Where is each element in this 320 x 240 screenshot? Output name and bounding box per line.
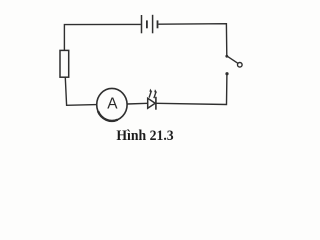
switch lever: [227, 56, 238, 63]
wire: left vertical upper + top wire to battery: [64, 24, 140, 50]
switch pivot dot: [225, 55, 228, 58]
ammeter A1 circle: [97, 88, 127, 120]
battery cell plate long (right): [152, 15, 154, 34]
ammeter bottom thicker arc: [98, 111, 118, 121]
wire: battery to top-right corner down to switch pivot: [158, 24, 227, 56]
resistor rectangle: [60, 50, 69, 77]
wire: ammeter to LED: [127, 102, 148, 105]
LED light arrow 1: [149, 92, 151, 98]
switch knob (open circle): [238, 63, 243, 68]
wire: bottom-left corner to ammeter: [65, 78, 97, 106]
svg-text:Hình 21.3: Hình 21.3: [116, 128, 174, 144]
LED light arrow 2: [154, 92, 156, 98]
battery cell plate long (left): [141, 15, 143, 33]
LED triangle: [148, 98, 156, 108]
wire: lower contact to bottom-right corner to LED: [156, 75, 227, 105]
LED cathode bar: [155, 97, 157, 110]
battery cell plate short: [146, 20, 148, 28]
switch lower contact dot: [225, 72, 228, 75]
battery cell plate short (right): [157, 20, 159, 28]
svg-text:A: A: [107, 96, 118, 113]
